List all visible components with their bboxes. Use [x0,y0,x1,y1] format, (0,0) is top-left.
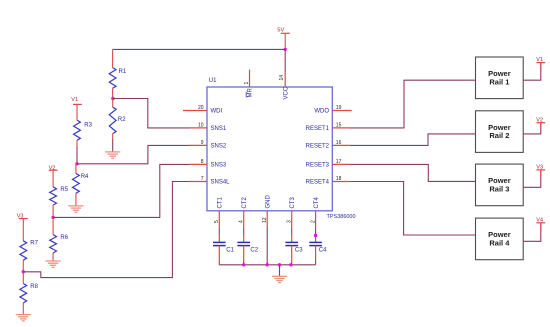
op-amp U1 supervisor IC body TPS386000 [207,78,332,211]
node R5-R6 junction [51,216,54,219]
svg-text:9: 9 [201,140,204,146]
capacitor C4 [309,211,327,265]
svg-text:R4: R4 [81,174,89,180]
svg-text:C1: C1 [226,247,234,253]
wire RESET3 to Power Rail 3 [350,164,476,181]
ground under R2 [105,152,120,158]
svg-text:15: 15 [336,123,342,129]
resistor R8 [20,272,39,315]
svg-text:1: 1 [244,82,250,85]
svg-text:CT4: CT4 [314,197,320,209]
capacitor C3 [285,211,303,265]
pin 10 SNS1 stub [190,123,227,133]
pin 17 RESET3 stub [306,159,350,169]
svg-text:R1: R1 [119,69,127,75]
power flag 5V [277,28,289,34]
svg-text:Rail 3: Rail 3 [489,185,509,194]
power rail block 4 [476,218,524,260]
pin 5 CT1 stub [214,197,223,223]
node CT4 junction [314,234,317,237]
pin 3 CT3 stub [287,197,296,223]
power flag V3 right [536,165,545,171]
wire capacitor ground rail [219,264,315,266]
node 5V rail junction [284,48,287,51]
svg-text:R5: R5 [60,187,68,193]
power rail block 1 [476,57,524,99]
svg-text:R2: R2 [118,117,126,123]
resistor R2 [109,99,126,152]
svg-text:CT1: CT1 [218,197,224,209]
resistor R5 [50,170,69,217]
resistor R7 [20,219,39,272]
resistor R3 [74,104,93,163]
resistor R6 [50,217,69,261]
capacitor C1 [213,211,235,265]
svg-text:SNS2: SNS2 [211,144,227,150]
pin 19 WDO stub [314,105,351,115]
pin 1 MR stub [244,70,254,98]
svg-text:18: 18 [336,176,342,182]
power rail block 3 [476,164,524,206]
wire R1-R2 node to SNS1 [113,99,190,128]
svg-text:V3: V3 [536,165,543,171]
svg-text:16: 16 [336,140,342,146]
resistor R1 [109,49,127,98]
node C3 rail junction [289,263,292,266]
pin 4 CT2 stub [239,197,248,223]
wire 5V to VCC pin 14 [284,33,286,87]
svg-text:R6: R6 [60,235,68,241]
svg-text:WDO: WDO [314,109,329,115]
svg-text:CT2: CT2 [242,197,248,209]
pin 20 WDI stub [183,105,222,115]
power flag V4 right [536,218,545,224]
IC part number label TPS386000 [327,214,356,220]
resistor R4 [73,164,90,206]
svg-text:WDI: WDI [211,109,223,115]
svg-text:TPS386000: TPS386000 [327,214,356,220]
power flag V2 [49,165,58,171]
node R1-R2 junction [111,97,114,100]
svg-text:GND: GND [265,195,271,209]
ground below capacitor rail [272,265,287,283]
svg-text:MR: MR [248,88,254,98]
svg-text:V1: V1 [536,57,543,63]
svg-text:Rail 2: Rail 2 [489,131,509,140]
svg-text:RESET4: RESET4 [306,180,330,186]
wire GND pin to ground rail [266,226,268,264]
svg-text:CT3: CT3 [290,197,296,209]
svg-text:V4: V4 [536,218,543,224]
svg-text:R3: R3 [84,123,92,129]
node R3-R4 junction [75,162,78,165]
svg-text:V2: V2 [536,118,543,124]
power rail block 2 [476,111,524,153]
ground under R4 [68,206,83,212]
svg-text:R7: R7 [30,241,38,247]
svg-text:V3: V3 [17,213,24,219]
node R7-R8 junction [22,270,25,273]
svg-text:SNS4L: SNS4L [211,180,231,186]
pin 18 RESET4 stub [306,176,350,186]
svg-text:C3: C3 [295,247,303,253]
wire RESET4 to Power Rail 4 [350,182,476,236]
wire RESET1 to Power Rail 1 [350,80,476,128]
svg-text:SNS1: SNS1 [211,126,227,132]
pin 15 RESET1 stub [306,123,350,133]
node C2 rail junction [242,263,245,266]
svg-text:7: 7 [201,176,204,182]
svg-text:U1: U1 [209,78,217,84]
ground under R8 [16,315,31,321]
wire R3-R4 node to SNS2 [77,145,190,163]
svg-text:R8: R8 [30,284,38,290]
wire R7-R8 node to SNS4L [23,182,189,278]
power flag V2 right [536,118,545,124]
pin 12 GND stub [262,195,271,227]
pin 14 VCC label [279,75,289,100]
power flag V1 [71,97,82,104]
wire Power Rail 3 output to V3 [523,170,541,187]
svg-text:SNS3: SNS3 [211,163,227,169]
node GND rail junction [266,263,269,266]
wire Power Rail 2 output to V2 [523,123,541,134]
power flag V1 right [536,57,545,63]
wire RESET2 to Power Rail 2 [350,134,476,146]
pin 16 RESET2 stub [306,140,350,150]
node ground stem junction [278,263,281,266]
wire R5-R6 node to SNS3 [53,164,190,217]
ground under R6 [46,261,61,267]
svg-text:Rail 1: Rail 1 [489,77,509,86]
svg-text:VCC: VCC [283,86,289,99]
svg-text:10: 10 [198,123,204,129]
svg-text:Rail 4: Rail 4 [489,239,510,248]
svg-text:V1: V1 [71,97,78,103]
wire Power Rail 4 output to V4 [523,223,541,242]
svg-text:8: 8 [201,159,204,165]
wire 5V rail to R1 [113,48,286,50]
svg-text:C2: C2 [250,247,258,253]
svg-text:5V: 5V [277,28,284,34]
pin 8 SNS3 stub [190,159,227,169]
svg-text:14: 14 [279,75,285,81]
svg-text:RESET2: RESET2 [306,144,330,150]
capacitor C2 [237,211,258,265]
pin 2 CT4 stub [310,197,319,223]
svg-text:RESET1: RESET1 [306,126,330,132]
svg-text:17: 17 [336,159,342,165]
pin 7 SNS4L stub [190,176,231,186]
svg-text:20: 20 [198,105,204,111]
wire Power Rail 1 output to V1 [523,63,541,81]
svg-text:C4: C4 [319,247,327,253]
svg-text:V2: V2 [49,165,56,171]
power flag V3 [17,213,28,219]
svg-text:19: 19 [336,105,342,111]
svg-text:12: 12 [262,217,268,223]
pin 9 SNS2 stub [190,140,227,150]
svg-text:RESET3: RESET3 [306,163,330,169]
